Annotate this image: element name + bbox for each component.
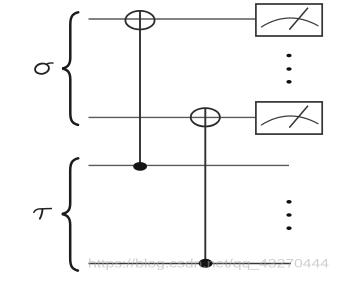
svg-text:https://blog.csdn.net/qq_43270: https://blog.csdn.net/qq_43270444 (88, 259, 330, 271)
